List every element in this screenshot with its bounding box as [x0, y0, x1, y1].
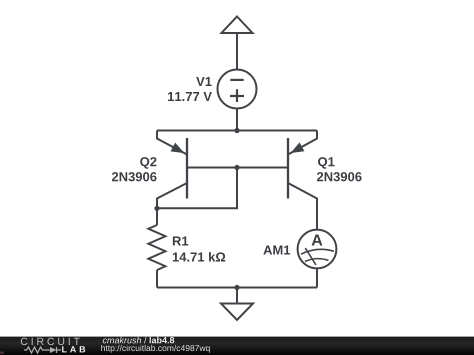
- footer bar (CircuitLab banner): [0, 337, 474, 355]
- value label 11.77 V: [168, 92, 212, 101]
- transistor Q1 emitter arrow (PNP): [291, 142, 305, 153]
- ammeter AM1 gauge long arc: [301, 249, 334, 254]
- transistor Q2 base bar: [186, 138, 188, 199]
- wire: bottom rail: [157, 287, 317, 289]
- resistor R1 top lead: [156, 208, 158, 225]
- resistor R1 zigzag body: [148, 225, 165, 270]
- footer author italic: [103, 337, 141, 344]
- power symbol VCC (top supply triangle): [222, 17, 253, 34]
- node: Q2 collector junction dot: [154, 206, 159, 211]
- node: base junction dot: [234, 165, 239, 170]
- ammeter AM1 needle: [305, 248, 316, 265]
- ground symbol: [221, 304, 253, 321]
- wire: base link Q2 to Q1: [187, 167, 288, 169]
- transistor Q2 collector wire: [157, 183, 187, 208]
- transistor Q1 emitter wire: [288, 131, 317, 155]
- transistor Q1 collector wire: [288, 183, 317, 230]
- logo LAB text: [62, 346, 85, 352]
- footer author title: [150, 337, 175, 344]
- wire: V1 bottom to top rail: [236, 109, 238, 131]
- ammeter A glyph: [312, 234, 323, 245]
- wire: top rail (emitters of Q1,Q2): [157, 130, 317, 132]
- wire: Q2 collector to base tie (diode connection): [157, 168, 237, 209]
- label Q2: [140, 157, 156, 169]
- logo wordmark CIRCUIT: [21, 338, 80, 345]
- ammeter AM1 gauge short arc: [305, 259, 329, 262]
- ammeter AM1 body: [298, 230, 337, 269]
- resistor R1 bottom lead: [156, 270, 158, 288]
- value label 2N3906 (Q1): [317, 172, 362, 181]
- footer url: [101, 345, 209, 353]
- node: top rail junction dot: [234, 128, 239, 133]
- wire: VCC triangle to V1 top: [236, 33, 238, 70]
- value label 2N3906 (Q2): [112, 172, 157, 181]
- logo resistor+diode glyph: [24, 347, 61, 353]
- label R1: [173, 237, 188, 246]
- label V1: [196, 77, 211, 86]
- value label 14.71 kΩ: [173, 252, 225, 261]
- wire: AM1 bottom to bottom rail: [316, 269, 318, 288]
- footer author sep: [144, 337, 147, 344]
- voltage source V1 body: [218, 70, 257, 109]
- transistor Q2 emitter arrow (PNP): [171, 143, 185, 154]
- V1 minus sign: [230, 79, 243, 81]
- V1 plus sign: [230, 89, 244, 102]
- node: ground junction dot: [234, 285, 239, 290]
- label Q1: [318, 157, 334, 169]
- label AM1: [263, 246, 290, 255]
- transistor Q1 base bar: [287, 138, 289, 199]
- red corner mark: [0, 352, 4, 355]
- wire: ground stub: [236, 288, 238, 304]
- transistor Q2 emitter wire: [157, 131, 187, 155]
